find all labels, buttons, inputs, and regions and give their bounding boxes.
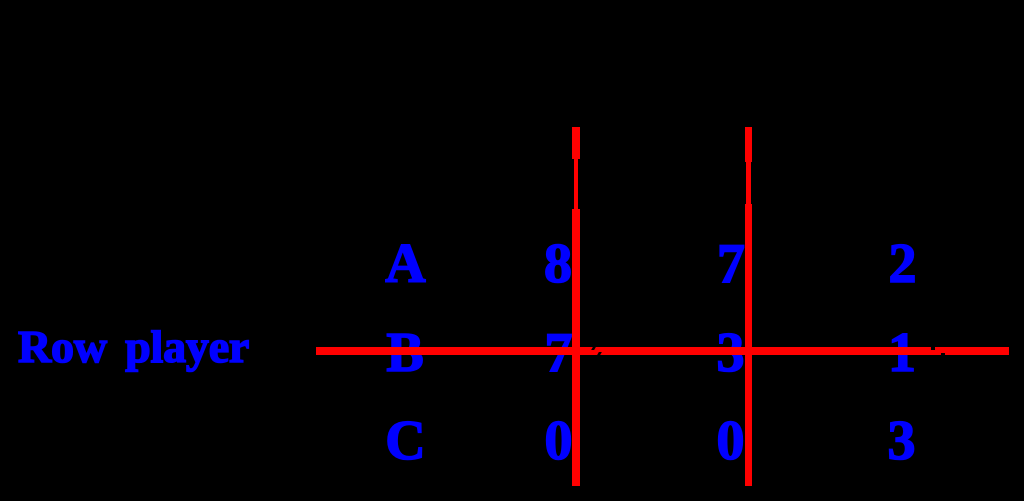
value A2 = 7 xyxy=(717,263,745,265)
value A3 = 2 xyxy=(889,263,917,265)
red horizontal strike line over row B xyxy=(316,347,1009,355)
hand-drawn thinning of vertical line 2 xyxy=(745,162,746,204)
value B1 = 7 xyxy=(545,352,573,354)
row label A xyxy=(385,263,425,265)
value B3 = 1 xyxy=(888,352,916,354)
value A1 = 8 xyxy=(544,263,572,265)
red vertical strike line over column 1 xyxy=(572,127,580,487)
value C2 = 0 xyxy=(717,440,745,442)
red vertical strike line over column 2 xyxy=(745,127,752,486)
hand-drawn nick in horizontal line xyxy=(591,347,596,350)
row label C xyxy=(385,440,425,442)
label Row player xyxy=(18,346,249,348)
value C3 = 3 xyxy=(888,440,916,442)
hand-drawn thinning of vertical line 1 xyxy=(572,159,574,209)
row label B xyxy=(386,352,423,354)
value B2 = 3 xyxy=(717,352,745,354)
value C1 = 0 xyxy=(545,440,573,442)
